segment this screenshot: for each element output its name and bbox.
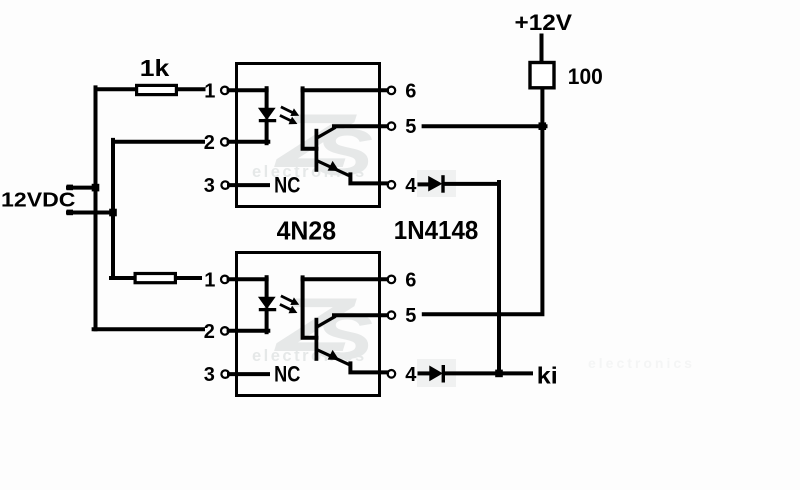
wire pin6 of U2 to base (top run) [303, 277, 387, 281]
svg-text:2: 2 [204, 132, 215, 154]
light emission arrow 1 inside U2 [281, 296, 293, 302]
optocoupler U2 4N28 body (DIP outline) [237, 253, 380, 396]
svg-text:4N28: 4N28 [277, 217, 337, 245]
wire: vertical bus B [111, 140, 115, 278]
wire pin3 of U1 NC stub [229, 183, 268, 187]
wire pin2 of U1 to LED cathode [229, 140, 269, 144]
node pin 6 of U2 (base) [388, 276, 396, 284]
light emission arrow 1 inside U1 [281, 107, 293, 113]
wire: D1 cathode across to vertical drop [445, 182, 499, 186]
wire pin6 of U1 to base (top run) [303, 88, 387, 92]
LED D2L inside U2 [265, 277, 269, 298]
wire: resistor R1 left lead to vertical bus A [96, 87, 136, 91]
wire base drop of U2 [303, 277, 317, 337]
node pin 5 of U1 (collector) [388, 122, 396, 130]
wire pin2 of U2 to LED cathode [229, 329, 269, 333]
svg-text:6: 6 [405, 269, 416, 291]
wire: vertical bus A (12VDC+ rail) [94, 87, 98, 329]
wire: pin 5 of U1 to +12V rail [424, 124, 546, 128]
LED D1L inside U1 [265, 88, 269, 109]
wire: R3 bottom rail down to pin 5 of U2 [424, 89, 543, 314]
svg-text:4: 4 [405, 175, 417, 197]
svg-text:3: 3 [204, 175, 215, 197]
transistor Q1 base bar [314, 129, 318, 172]
wire pin1 of U2 into LED anode [229, 277, 267, 281]
svg-text:ki: ki [537, 363, 558, 389]
resistor R3 100 body [530, 63, 554, 88]
wire pin1 of U1 into LED anode [229, 88, 267, 92]
wire pin3 of U2 NC stub [229, 372, 268, 376]
wire: R2 right lead to pin 1 of U2 [177, 276, 200, 280]
diode D1 1N4148 anode lead [420, 182, 430, 186]
svg-text:12VDC: 12VDC [1, 190, 76, 212]
junction: stub to bus A [92, 184, 100, 192]
light emission arrow 2 inside U2 [280, 304, 291, 309]
svg-text:5: 5 [405, 116, 416, 138]
wire base drop of U1 [303, 88, 317, 148]
terminal tick: 12VDC negative lead [67, 210, 73, 216]
node pin 4 of U1 (emitter) [388, 181, 396, 189]
svg-text:NC: NC [274, 361, 300, 386]
resistor R2 body [135, 274, 175, 283]
svg-text:100: 100 [568, 64, 603, 89]
watermark ZS logo upper tile [252, 99, 373, 189]
watermark fragment behind diode D1 [417, 170, 456, 197]
diode D2 1N4148 body [430, 366, 442, 380]
wire: bus B bottom run to resistor R2 [111, 276, 135, 280]
svg-text:1: 1 [204, 269, 215, 291]
wire: vertical drop from D1 to ki node [497, 182, 501, 373]
junction: D1 drop joins ki wire [495, 370, 503, 378]
transistor Q1 emitter with arrow [316, 160, 350, 176]
svg-text:2: 2 [204, 321, 215, 343]
svg-text:6: 6 [405, 80, 416, 102]
transistor Q1 collector [316, 127, 335, 138]
svg-text:4: 4 [405, 364, 417, 386]
svg-text:1N4148: 1N4148 [394, 217, 479, 245]
transistor Q2 base bar [314, 318, 318, 361]
transistor Q2 collector [316, 316, 335, 327]
optocoupler U1 4N28 body (DIP outline) [237, 64, 380, 207]
svg-text:1k: 1k [140, 55, 171, 81]
light emission arrow 2 inside U1 [280, 115, 291, 120]
transistor Q2 emitter with arrow [316, 349, 350, 365]
watermark fragment behind diode D2 [417, 359, 456, 387]
diode D1 1N4148 body [429, 177, 442, 191]
wire: R1 right lead to pin 1 of U1 [178, 87, 204, 91]
wire: 12VDC positive stub [68, 186, 96, 190]
svg-text:3: 3 [204, 364, 215, 386]
junction: pin5/U1 with 100R rail [539, 122, 547, 130]
wire: D2 cathode to ki output [445, 371, 531, 375]
node pin 5 of U2 (collector) [388, 311, 396, 319]
watermark ZS logo lower tile [252, 283, 373, 373]
svg-text:+12V: +12V [515, 10, 573, 35]
wire: bus A bottom run to pin 2 of U2 [94, 327, 203, 331]
node pin 6 of U1 (base) [388, 87, 396, 95]
svg-text:NC: NC [274, 172, 300, 197]
resistor R1 1k body [137, 85, 177, 94]
svg-text:electronics: electronics [588, 355, 695, 371]
svg-text:1: 1 [204, 80, 215, 102]
terminal tick: 12VDC positive lead [67, 185, 73, 191]
wire: 12VDC negative stub [68, 211, 114, 215]
node pin 4 of U2 (emitter) [388, 370, 396, 378]
wire: +12V lead into R3 [540, 36, 544, 62]
wire: pin 2 of U1 lead to vertical bus B [113, 140, 203, 144]
junction: stub to bus B [109, 209, 117, 217]
diode D2 1N4148 anode lead [420, 371, 431, 375]
svg-text:5: 5 [405, 305, 416, 327]
